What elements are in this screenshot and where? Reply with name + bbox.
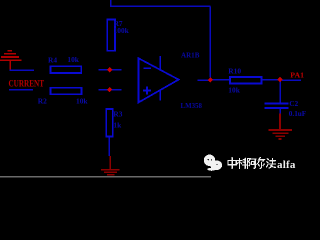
capacitor C2 plates [265, 102, 289, 104]
wire R10 to PA1 node [262, 79, 279, 81]
svg-text:AR1B: AR1B [181, 51, 199, 60]
wire op-amp output [197, 79, 209, 81]
svg-text:10k: 10k [67, 55, 79, 64]
wire inverting input [98, 69, 121, 71]
watermark divider line [0, 176, 211, 177]
wire feedback vertical [209, 6, 211, 77]
svg-text:R3: R3 [113, 110, 122, 119]
op-amp V- power pin [159, 90, 161, 100]
wire output to R10 [212, 79, 230, 81]
svg-text:alfa: alfa [277, 159, 296, 171]
watermark text 中科阿尔法 (drawn strokes) [228, 158, 275, 169]
svg-text:10k: 10k [76, 97, 88, 106]
科 [237, 158, 246, 168]
wire PA1 node down to C2 [279, 81, 281, 103]
wire from GND1 to R4 row [10, 69, 34, 71]
op-amp V+ power pin [159, 56, 161, 70]
svg-text:CURRENT: CURRENT [9, 78, 45, 88]
op-amp AR1B triangle [138, 58, 178, 102]
svg-text:R4: R4 [48, 56, 57, 65]
junction dot non-inverting node [107, 87, 112, 92]
wire R3 to GND2 [108, 137, 110, 156]
中 [228, 158, 236, 169]
resistor R3 [106, 109, 113, 137]
svg-text:R2: R2 [38, 97, 47, 106]
尔 [257, 158, 265, 169]
svg-text:LM358: LM358 [181, 101, 202, 110]
watermark logo [204, 155, 222, 171]
wire stub above top wire [110, 0, 112, 6]
svg-text:10k: 10k [228, 85, 240, 94]
resistor R2 [50, 88, 81, 95]
wire PA1 stub [282, 79, 301, 81]
svg-text:C2: C2 [289, 99, 298, 108]
svg-text:R10: R10 [228, 66, 241, 75]
ground GND3 (right, dark red) [269, 114, 293, 140]
ground GND1 (inverted earth, top-left, red) [0, 51, 22, 71]
resistor R10 [230, 77, 262, 84]
junction dot inverting node [107, 67, 112, 72]
ground GND2 (bottom center, dark red) [101, 156, 119, 177]
svg-text:PA1: PA1 [290, 71, 304, 80]
resistor R7 [107, 20, 115, 51]
svg-text:100k: 100k [114, 26, 130, 35]
wire non-inverting input [98, 89, 121, 91]
junction dot output node [208, 77, 213, 82]
阿 [248, 159, 257, 169]
op-amp minus input symbol [143, 67, 150, 69]
op-amp plus input symbol [143, 90, 151, 92]
svg-text:0.1uF: 0.1uF [289, 110, 306, 118]
wire top horizontal (feedback) [110, 5, 210, 7]
junction dot PA1 node [277, 77, 282, 82]
法 [266, 158, 275, 168]
wire C2 to GND3 [279, 109, 281, 114]
resistor R4 [50, 66, 81, 73]
wire CURRENT net [9, 89, 33, 91]
svg-text:1k: 1k [113, 121, 122, 130]
